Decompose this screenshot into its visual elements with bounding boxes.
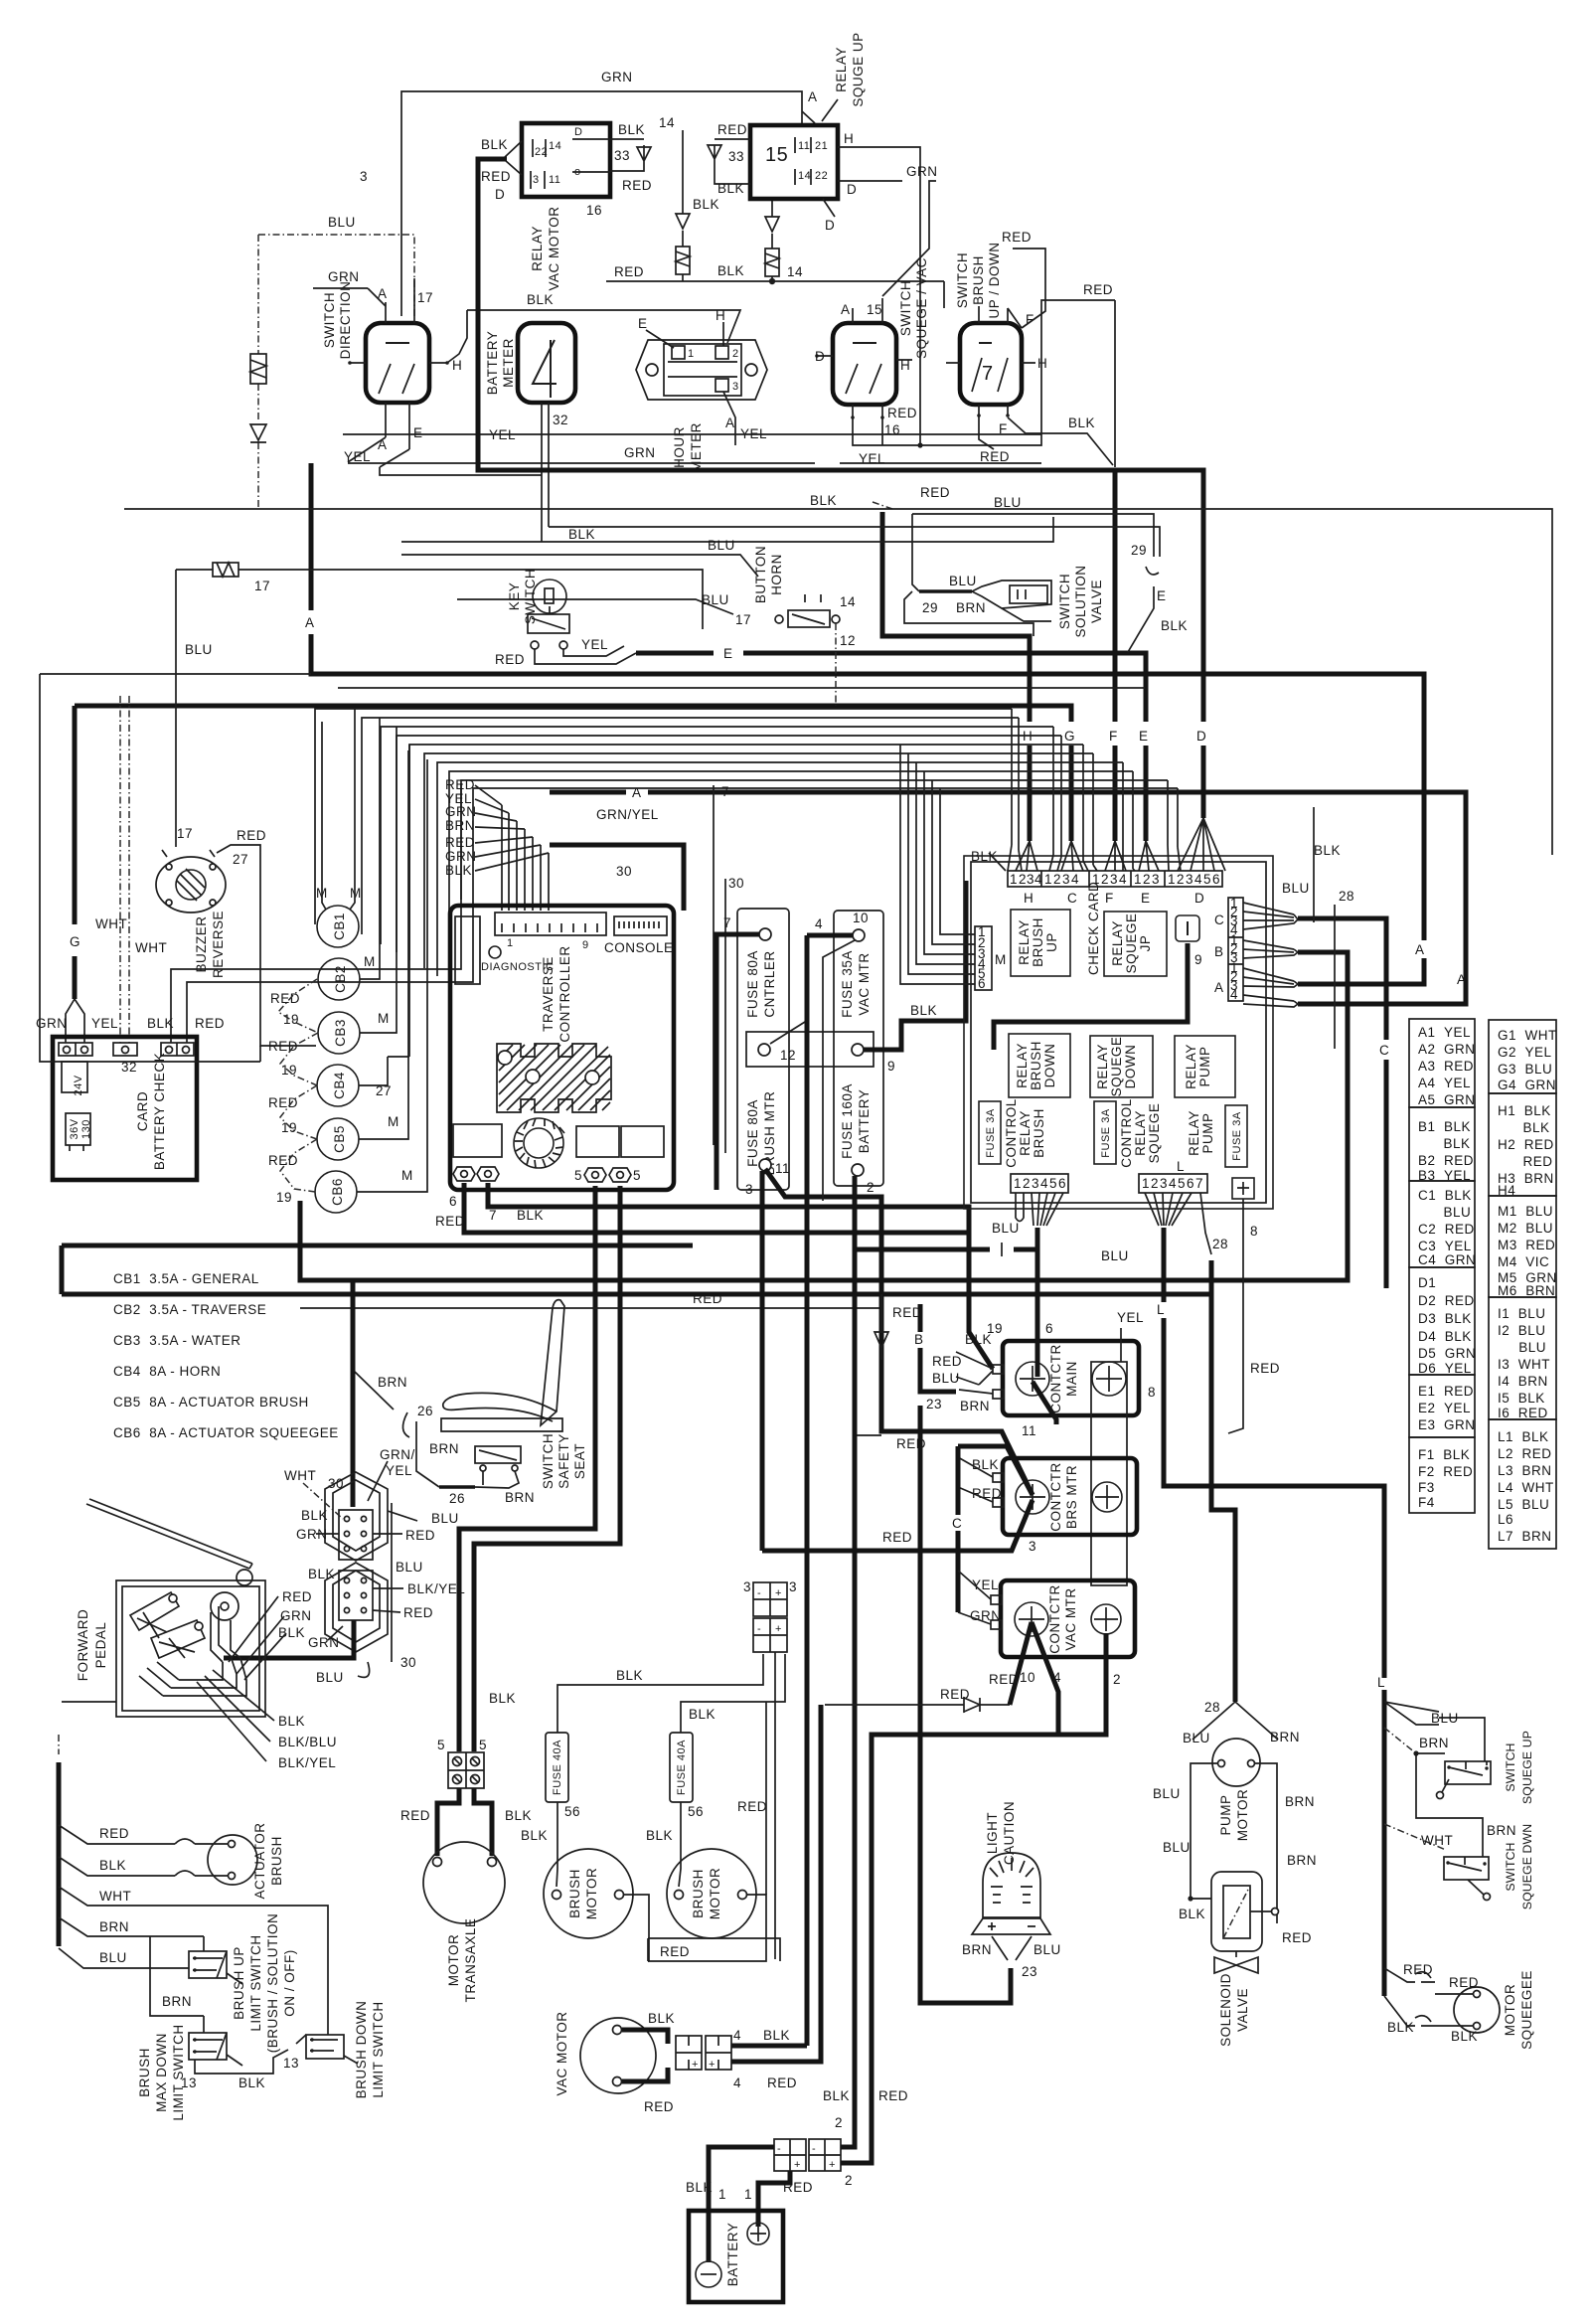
- svg-text:7: 7: [982, 363, 994, 385]
- svg-text:RED: RED: [940, 1687, 970, 1702]
- svg-text:GRN/: GRN/: [380, 1447, 415, 1462]
- svg-text:BLU: BLU: [949, 574, 977, 588]
- fuse 40a no2: [670, 1733, 693, 1802]
- wire BLK F to trunk: [1008, 417, 1113, 465]
- svg-text:F4: F4: [1418, 1495, 1435, 1510]
- switch squege dwn: [1384, 1824, 1446, 1850]
- svg-text:RED: RED: [1282, 1930, 1312, 1945]
- contactor brs mtr: [1003, 1458, 1137, 1535]
- svg-text:RED: RED: [783, 2180, 813, 2195]
- squege switches right: [1384, 1702, 1485, 1761]
- svg-text:24V: 24V: [73, 1075, 84, 1095]
- wire BLK top meters: [467, 310, 740, 343]
- svg-text:3: 3: [732, 381, 739, 393]
- svg-text:(BRUSH / SOLUTION: (BRUSH / SOLUTION: [265, 1913, 280, 2054]
- svg-text:LIMIT SWITCH: LIMIT SWITCH: [171, 2024, 186, 2120]
- svg-text:1: 1: [744, 2187, 752, 2202]
- svg-text:B1 BLK: B1 BLK: [1418, 1119, 1471, 1134]
- svg-text:H: H: [1037, 356, 1047, 371]
- svg-text:C3 YEL: C3 YEL: [1418, 1239, 1472, 1253]
- svg-text:MOTOR: MOTOR: [446, 1934, 461, 1987]
- svg-text:8: 8: [1148, 1385, 1156, 1400]
- svg-text:7: 7: [1195, 1176, 1203, 1191]
- svg-text:10: 10: [853, 911, 869, 925]
- svg-text:14: 14: [787, 264, 803, 279]
- wire 14b vertical with diode+resistor: [771, 199, 773, 281]
- svg-text:RED: RED: [403, 1605, 433, 1620]
- svg-text:GRN: GRN: [308, 1635, 340, 1650]
- svg-text:H1 BLK: H1 BLK: [1498, 1103, 1551, 1118]
- wire BLK pedal bus: [62, 1701, 116, 1703]
- svg-text:SOLENOID: SOLENOID: [1218, 1973, 1233, 2047]
- battery: [689, 2211, 783, 2302]
- svg-text:1: 1: [1134, 872, 1142, 887]
- brush motor loop: [623, 1895, 766, 1961]
- svg-text:1: 1: [718, 2187, 726, 2202]
- svg-text:HOUR: HOUR: [672, 426, 687, 468]
- svg-text:E: E: [1141, 891, 1151, 906]
- connector I: [1176, 915, 1199, 941]
- svg-text:RED: RED: [282, 1589, 312, 1604]
- svg-text:32: 32: [553, 413, 568, 427]
- svg-text:SQUEGE DWN: SQUEGE DWN: [1520, 1824, 1534, 1909]
- svg-text:PUMP: PUMP: [1197, 1046, 1212, 1086]
- svg-text:DOWN: DOWN: [1042, 1044, 1057, 1088]
- svg-text:ACTUATOR: ACTUATOR: [252, 1822, 267, 1899]
- svg-text:RED: RED: [99, 1826, 129, 1841]
- svg-text:RED: RED: [1498, 1154, 1553, 1169]
- svg-text:RELAY: RELAY: [1184, 1044, 1198, 1089]
- svg-text:I4 BRN: I4 BRN: [1498, 1374, 1548, 1389]
- svg-text:11: 11: [775, 1161, 790, 1176]
- svg-text:RELAY: RELAY: [1110, 920, 1125, 966]
- svg-text:BLU: BLU: [1418, 1205, 1471, 1220]
- svg-text:5: 5: [1203, 872, 1211, 887]
- svg-text:D: D: [495, 187, 505, 202]
- svg-text:YEL: YEL: [386, 1463, 412, 1478]
- svg-text:33: 33: [728, 149, 744, 164]
- svg-text:+: +: [829, 2159, 836, 2171]
- svg-text:SQUEGE: SQUEGE: [1109, 1037, 1124, 1097]
- svg-text:BRUSH: BRUSH: [971, 255, 986, 305]
- svg-text:5: 5: [574, 1168, 582, 1183]
- trunk GRN/YEL y850: [550, 845, 684, 911]
- traverse controller U2: [450, 906, 674, 1190]
- svg-text:SWITCH: SWITCH: [523, 569, 538, 624]
- svg-text:10: 10: [1020, 1670, 1035, 1685]
- svg-text:2: 2: [835, 2115, 843, 2130]
- svg-text:BLU: BLU: [1163, 1840, 1191, 1855]
- svg-text:BLK: BLK: [965, 1332, 992, 1347]
- diode contactor: [874, 1294, 888, 1360]
- svg-text:-: -: [757, 1587, 761, 1599]
- svg-text:9: 9: [887, 1059, 895, 1074]
- svg-text:D4 BLK: D4 BLK: [1418, 1329, 1472, 1344]
- key switch: [533, 580, 566, 613]
- svg-text:36V: 36V: [69, 1118, 80, 1139]
- svg-text:BLU: BLU: [1033, 1942, 1061, 1957]
- svg-text:RELAY: RELAY: [1015, 1043, 1030, 1088]
- brush max down limit switch: [189, 2033, 227, 2060]
- svg-text:BLU: BLU: [185, 642, 213, 657]
- contactor vac mtr: [1001, 1580, 1135, 1657]
- svg-text:30: 30: [400, 1655, 416, 1670]
- svg-text:VALVE: VALVE: [1235, 1988, 1250, 2032]
- svg-text:D5 GRN: D5 GRN: [1418, 1346, 1476, 1361]
- svg-text:27: 27: [233, 852, 248, 867]
- svg-text:YEL: YEL: [972, 1577, 999, 1592]
- trunk BRN seat vertical: [351, 1282, 356, 1507]
- svg-text:BRN: BRN: [960, 1399, 990, 1413]
- svg-text:A1 YEL: A1 YEL: [1418, 1025, 1471, 1040]
- svg-text:BLK: BLK: [689, 1707, 715, 1722]
- svg-text:D: D: [1196, 729, 1206, 744]
- svg-text:FUSE 3A: FUSE 3A: [1100, 1108, 1112, 1158]
- svg-text:BLU: BLU: [1183, 1731, 1210, 1745]
- svg-text:3: 3: [360, 169, 368, 184]
- svg-text:4: 4: [733, 2075, 741, 2090]
- svg-text:BLK: BLK: [1314, 843, 1341, 858]
- bottom rects: [453, 1124, 502, 1157]
- svg-text:RELAY: RELAY: [1018, 1110, 1033, 1156]
- svg-text:BLK: BLK: [278, 1714, 305, 1729]
- svg-text:YEL: YEL: [1117, 1310, 1144, 1325]
- svg-text:4: 4: [1071, 872, 1079, 887]
- svg-text:FUSE 160A: FUSE 160A: [840, 1083, 855, 1159]
- svg-text:28: 28: [1212, 1237, 1228, 1251]
- svg-text:SWITCH: SWITCH: [1504, 1743, 1517, 1791]
- svg-text:BRN: BRN: [1270, 1730, 1300, 1744]
- svg-text:C4 GRN: C4 GRN: [1418, 1252, 1476, 1267]
- svg-text:12: 12: [840, 633, 856, 648]
- connector J30a: [325, 1472, 388, 1561]
- svg-text:MOTOR: MOTOR: [584, 1868, 599, 1920]
- breaker CB6: [315, 1171, 357, 1213]
- svg-text:2: 2: [1019, 872, 1027, 887]
- svg-text:BRUSH: BRUSH: [137, 2048, 152, 2097]
- connector J30b: [325, 1563, 388, 1652]
- svg-text:SQUEGE: SQUEGE: [1147, 1103, 1162, 1164]
- svg-text:MOTOR: MOTOR: [708, 1868, 722, 1920]
- fan diagonals into header: [1008, 841, 1053, 871]
- svg-text:BRN: BRN: [445, 818, 475, 833]
- svg-text:+: +: [775, 1623, 782, 1635]
- svg-text:PUMP: PUMP: [1218, 1794, 1233, 1835]
- svg-text:RED: RED: [737, 1799, 767, 1814]
- svg-text:BRS MTR: BRS MTR: [1064, 1465, 1079, 1529]
- svg-text:RED: RED: [435, 1214, 465, 1229]
- svg-text:F1 BLK: F1 BLK: [1418, 1447, 1470, 1462]
- svg-text:A: A: [378, 286, 388, 301]
- svg-text:4: 4: [1119, 872, 1127, 887]
- svg-text:A2 GRN: A2 GRN: [1418, 1042, 1476, 1057]
- svg-text:-: -: [777, 2143, 781, 2155]
- svg-text:CB2: CB2: [333, 965, 348, 993]
- svg-text:BLK/YEL: BLK/YEL: [278, 1755, 336, 1770]
- svg-text:I3 WHT: I3 WHT: [1498, 1357, 1550, 1372]
- svg-text:BLK: BLK: [717, 181, 744, 196]
- svg-text:RELAY: RELAY: [530, 226, 545, 271]
- svg-text:DIRECTION: DIRECTION: [338, 281, 353, 360]
- svg-text:WHT: WHT: [284, 1468, 316, 1483]
- svg-text:CB4: CB4: [332, 1072, 347, 1099]
- svg-text:7: 7: [723, 915, 731, 930]
- svg-text:PEDAL: PEDAL: [93, 1622, 108, 1669]
- svg-text:BLK: BLK: [1451, 2029, 1478, 2044]
- svg-text:MAX DOWN: MAX DOWN: [154, 2033, 169, 2112]
- svg-text:SAFETY: SAFETY: [556, 1433, 571, 1489]
- svg-text:RED: RED: [1083, 282, 1113, 297]
- svg-text:BLK: BLK: [1387, 2020, 1414, 2035]
- svg-text:3: 3: [1029, 1539, 1036, 1554]
- svg-text:D1: D1: [1418, 1275, 1436, 1290]
- wire 17 resistor row: [176, 570, 703, 629]
- solution valve loop BLU: [912, 514, 1154, 652]
- svg-text:BLK: BLK: [763, 2028, 790, 2043]
- svg-text:FUSE 40A: FUSE 40A: [552, 1740, 563, 1795]
- svg-text:I6 RED: I6 RED: [1498, 1406, 1548, 1420]
- svg-text:BLK: BLK: [147, 1016, 174, 1031]
- wire BLK y512: [124, 509, 1552, 855]
- svg-text:L: L: [1157, 1302, 1165, 1317]
- svg-text:VALVE: VALVE: [1089, 580, 1104, 623]
- svg-text:DOWN: DOWN: [1123, 1045, 1138, 1089]
- relay brush up: [1011, 910, 1070, 976]
- svg-text:LIGHT: LIGHT: [985, 1812, 1000, 1854]
- svg-text:GRN: GRN: [445, 804, 477, 819]
- svg-text:6: 6: [1058, 1176, 1066, 1191]
- svg-text:4: 4: [815, 916, 823, 931]
- svg-text:RELAY: RELAY: [1133, 1110, 1148, 1156]
- wire BLU horn1: [401, 555, 758, 577]
- svg-text:CARD: CARD: [135, 1091, 150, 1131]
- svg-text:RED: RED: [1002, 230, 1032, 245]
- svg-text:H: H: [715, 308, 725, 323]
- svg-text:15: 15: [867, 302, 882, 317]
- svg-text:VAC MOTOR: VAC MOTOR: [555, 2011, 569, 2095]
- relay brush down: [1009, 1034, 1070, 1097]
- wire RED top right: [1013, 249, 1045, 328]
- wire BLK 9 to checkcard: [864, 881, 966, 1050]
- svg-text:+: +: [775, 1587, 782, 1599]
- svg-text:CB6: CB6: [330, 1178, 345, 1206]
- wire L right side: [1382, 1690, 1387, 1996]
- svg-text:RELAY: RELAY: [834, 47, 849, 92]
- svg-text:BLK: BLK: [810, 493, 837, 508]
- svg-text:A4 YEL: A4 YEL: [1418, 1076, 1471, 1090]
- brush motor 2: [667, 1849, 756, 1938]
- legend table G-L: [1489, 1020, 1556, 1093]
- svg-text:33: 33: [614, 148, 630, 163]
- svg-text:RED: RED: [237, 828, 266, 843]
- svg-text:+: +: [709, 2059, 715, 2071]
- svg-text:BATTERY CHECK: BATTERY CHECK: [152, 1053, 167, 1170]
- svg-text:RELAY: RELAY: [1187, 1110, 1201, 1156]
- svg-text:L4 WHT: L4 WHT: [1498, 1480, 1554, 1495]
- svg-text:E: E: [1157, 588, 1167, 603]
- wire BLK y545: [401, 517, 1053, 542]
- svg-text:12: 12: [780, 1048, 796, 1063]
- svg-text:F2 RED: F2 RED: [1418, 1464, 1473, 1479]
- svg-text:BRN: BRN: [99, 1919, 129, 1934]
- svg-text:BLK: BLK: [99, 1858, 126, 1873]
- svg-text:5: 5: [1049, 1176, 1057, 1191]
- svg-text:30: 30: [728, 876, 744, 891]
- fan A lower: [1243, 995, 1298, 1007]
- svg-text:METER: METER: [501, 338, 516, 388]
- svg-text:BUZZER: BUZZER: [194, 916, 209, 973]
- svg-text:WHT: WHT: [135, 940, 167, 955]
- wire yel bus2: [380, 467, 542, 475]
- svg-text:BLU: BLU: [1431, 1711, 1459, 1726]
- svg-text:BRN: BRN: [1487, 1823, 1516, 1838]
- wire BLU dashdot top-left: [258, 235, 414, 316]
- svg-text:E: E: [723, 646, 733, 661]
- svg-text:M4 VIC: M4 VIC: [1498, 1254, 1549, 1269]
- svg-text:BLK: BLK: [527, 292, 554, 307]
- svg-text:D6 YEL: D6 YEL: [1418, 1361, 1472, 1376]
- svg-text:3: 3: [533, 174, 540, 186]
- svg-text:1: 1: [688, 348, 695, 360]
- svg-text:I2 BLU: I2 BLU: [1498, 1323, 1546, 1338]
- svg-text:9: 9: [1194, 952, 1202, 967]
- svg-text:+: +: [794, 2159, 801, 2171]
- trunk F vertical: [1113, 470, 1118, 841]
- thick wires from bolts: [464, 1183, 969, 1233]
- svg-text:17: 17: [735, 612, 751, 627]
- svg-text:YEL: YEL: [91, 1016, 118, 1031]
- trunk A2 y797: [550, 792, 1466, 1004]
- svg-text:5: 5: [633, 1168, 641, 1183]
- nested bus loops: [315, 709, 1012, 924]
- svg-text:CB3 3.5A - WATER: CB3 3.5A - WATER: [113, 1333, 241, 1348]
- switch S1 direction: [366, 323, 429, 403]
- svg-text:JP: JP: [1138, 935, 1153, 952]
- svg-text:L7 BRN: L7 BRN: [1498, 1529, 1552, 1544]
- svg-text:CONTROLLER: CONTROLLER: [557, 945, 572, 1042]
- svg-text:14: 14: [659, 115, 675, 130]
- svg-text:FUSE 35A: FUSE 35A: [840, 950, 855, 1018]
- svg-text:A: A: [725, 415, 735, 430]
- svg-text:TRANSAXLE: TRANSAXLE: [463, 1918, 478, 2003]
- svg-text:M: M: [388, 1114, 399, 1129]
- svg-text:4: 4: [1169, 1176, 1177, 1191]
- svg-text:BLU: BLU: [708, 538, 735, 553]
- svg-text:BRUSH UP: BRUSH UP: [232, 1946, 246, 2020]
- svg-text:A3 RED: A3 RED: [1418, 1059, 1474, 1074]
- svg-text:FUSE 3A: FUSE 3A: [985, 1108, 997, 1158]
- svg-text:RED: RED: [878, 2088, 908, 2103]
- svg-text:L: L: [1377, 1675, 1385, 1690]
- svg-text:BLU: BLU: [702, 592, 729, 607]
- svg-text:19: 19: [283, 1012, 299, 1027]
- connector M: [975, 926, 992, 990]
- svg-text:CNTRLER: CNTRLER: [762, 950, 777, 1017]
- svg-text:7: 7: [489, 1208, 497, 1223]
- svg-text:BLK: BLK: [568, 527, 595, 542]
- svg-text:B: B: [1214, 944, 1224, 959]
- svg-text:CB4 8A - HORN: CB4 8A - HORN: [113, 1364, 221, 1379]
- svg-text:C: C: [1067, 891, 1077, 906]
- wire 10 diode: [825, 1697, 1010, 1713]
- wire E hook down: [904, 591, 1033, 636]
- svg-text:RED: RED: [644, 2099, 674, 2114]
- svg-text:GRN: GRN: [601, 70, 633, 84]
- svg-text:BLU: BLU: [99, 1950, 127, 1965]
- svg-text:RED: RED: [268, 1095, 298, 1110]
- svg-text:M: M: [401, 1168, 413, 1183]
- WHT dashdot wires: [120, 696, 129, 1043]
- svg-text:BLK: BLK: [1068, 415, 1095, 430]
- svg-text:23: 23: [1022, 1964, 1037, 1979]
- svg-text:4: 4: [1053, 1670, 1061, 1685]
- fuse 3a control relay brush: [979, 1101, 1001, 1164]
- svg-text:F3: F3: [1418, 1480, 1435, 1495]
- svg-text:WHT: WHT: [95, 916, 127, 931]
- breaker CB5: [317, 1118, 359, 1160]
- svg-text:FUSE 80A: FUSE 80A: [745, 950, 760, 1018]
- svg-text:RED: RED: [445, 835, 475, 850]
- svg-text:L5 BLU: L5 BLU: [1498, 1497, 1549, 1512]
- svg-text:56: 56: [564, 1804, 580, 1819]
- svg-text:11: 11: [549, 174, 560, 186]
- svg-text:LIMIT SWITCH: LIMIT SWITCH: [371, 2001, 386, 2097]
- svg-text:BLU: BLU: [431, 1511, 459, 1526]
- svg-text:28: 28: [1339, 889, 1354, 904]
- svg-text:RELAY: RELAY: [1095, 1044, 1110, 1089]
- header connector top: [1008, 871, 1222, 887]
- svg-text:G: G: [70, 934, 80, 949]
- wire 19 trunk: [300, 952, 1348, 1280]
- wire 23 left: [920, 1304, 956, 1392]
- svg-text:FORWARD: FORWARD: [76, 1609, 90, 1682]
- svg-text:D2 RED: D2 RED: [1418, 1293, 1475, 1308]
- wire RED right vertical: [1114, 300, 1116, 467]
- solenoid valve: [1188, 1896, 1192, 1901]
- svg-text:4: 4: [1034, 872, 1042, 887]
- svg-text:BLK: BLK: [1498, 1120, 1550, 1135]
- svg-text:BLK: BLK: [505, 1808, 532, 1823]
- svg-text:RED: RED: [980, 449, 1010, 464]
- svg-text:8: 8: [1250, 1224, 1258, 1239]
- svg-text:GRN: GRN: [624, 445, 656, 460]
- svg-text:-: -: [812, 2143, 816, 2155]
- svg-text:3: 3: [1110, 872, 1118, 887]
- svg-text:A: A: [1214, 980, 1224, 995]
- relay U1 vac motor: [522, 123, 610, 197]
- svg-text:-: -: [757, 1623, 761, 1635]
- red loop around light: [648, 1938, 780, 1961]
- battery connector pair: [774, 2139, 806, 2171]
- diode: [250, 424, 266, 442]
- svg-text:E: E: [638, 316, 648, 331]
- svg-text:H2 RED: H2 RED: [1498, 1137, 1554, 1152]
- svg-text:BLK: BLK: [910, 1003, 937, 1018]
- svg-text:11: 11: [1022, 1423, 1036, 1438]
- fuse F1 column: [737, 909, 789, 1190]
- svg-text:SQUEEGEE: SQUEEGEE: [1519, 1970, 1534, 2050]
- breaker CB4: [317, 1065, 359, 1106]
- svg-text:CONTCTR: CONTCTR: [1048, 1462, 1063, 1532]
- svg-text:BLU: BLU: [992, 1221, 1020, 1236]
- trunk RED G start: [882, 512, 1030, 841]
- svg-text:6: 6: [1212, 872, 1220, 887]
- switch S2 squege/vac: [833, 323, 896, 405]
- svg-text:KEY: KEY: [507, 582, 522, 611]
- svg-text:D: D: [1194, 891, 1204, 906]
- svg-text:BRUSH: BRUSH: [567, 1869, 582, 1918]
- svg-text:BLK: BLK: [823, 2088, 850, 2103]
